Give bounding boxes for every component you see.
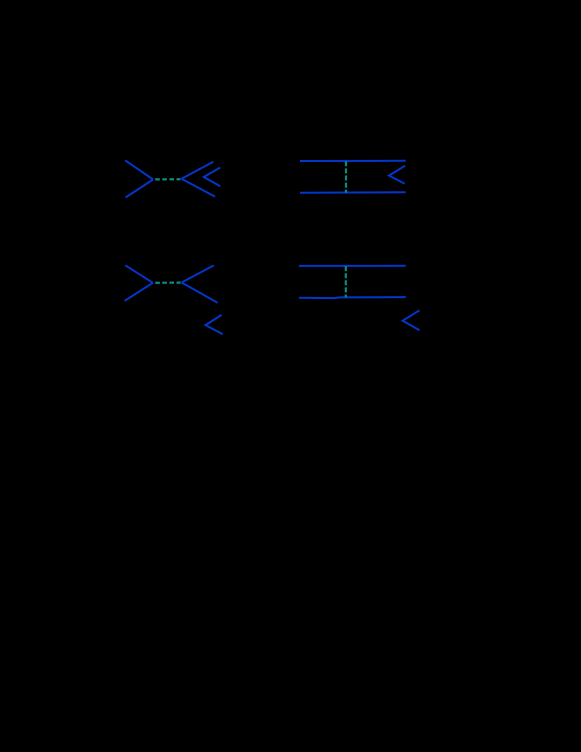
wire incoming fermion top-left — [125, 160, 153, 179]
scalar propagator D1 (dashed) — [155, 178, 180, 180]
wire bottom fermion line — [299, 297, 406, 298]
wire outgoing fermion bottom-right — [182, 179, 216, 197]
diagram 3: s-channel (bottom-left) — [125, 265, 223, 334]
arrowhead chevron D4 — [403, 310, 420, 330]
wire bottom fermion line — [300, 191, 406, 194]
scalar propagator D3 (dashed) — [155, 282, 180, 284]
wire incoming fermion bottom-left — [126, 180, 154, 198]
wire outgoing fermion top-right — [182, 162, 214, 179]
wire top fermion line — [299, 265, 406, 267]
arrowhead chevron D1 — [204, 168, 220, 187]
diagram 1: s-channel (top-left) — [125, 160, 220, 197]
scalar propagator D4 (vertical dashed) — [345, 266, 347, 297]
arrowhead chevron D3 — [206, 315, 223, 334]
arrowhead chevron D2 — [389, 166, 405, 184]
diagram 4: t-channel (bottom-right) — [299, 266, 420, 331]
wire incoming fermion bottom-left — [125, 283, 153, 301]
diagram 2: t-channel (top-right) — [300, 161, 406, 193]
wire top fermion line — [300, 160, 406, 162]
wire outgoing fermion top-right — [182, 265, 214, 282]
wire outgoing fermion bottom-right — [182, 283, 218, 303]
scalar propagator D2 (vertical dashed) — [345, 161, 347, 192]
wire incoming fermion top-left — [125, 265, 153, 283]
